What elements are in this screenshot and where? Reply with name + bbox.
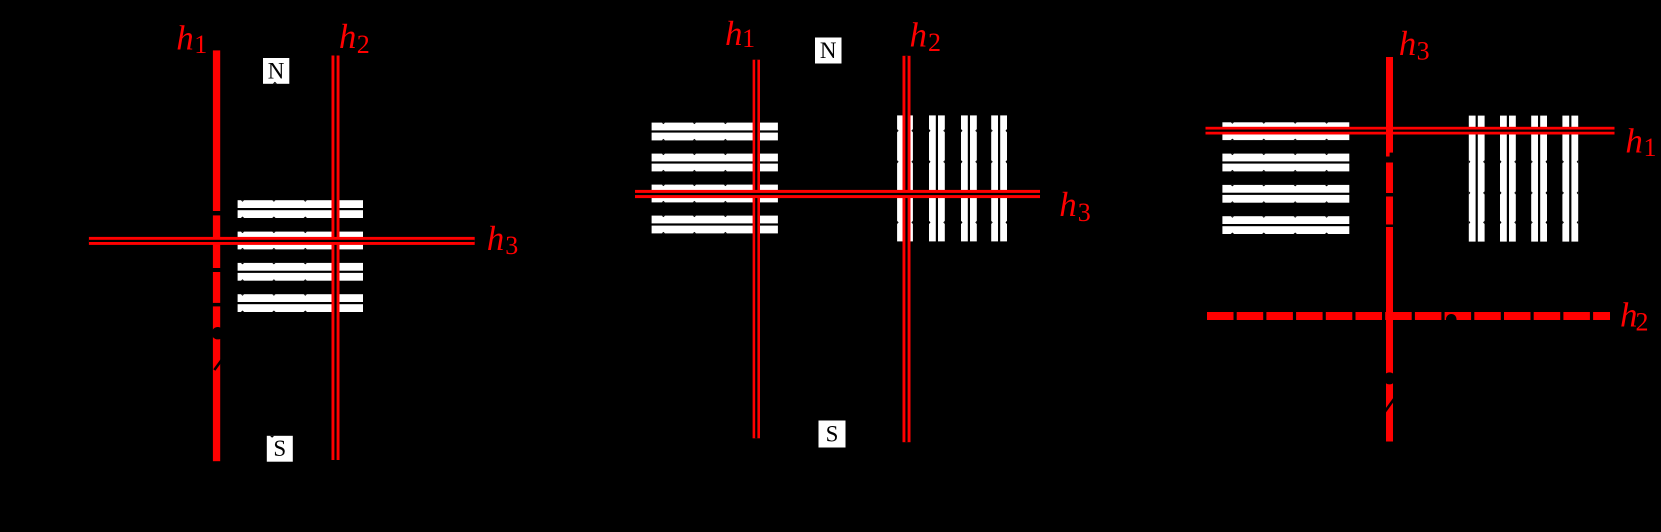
panel 1: label h3	[487, 219, 519, 260]
svg-text:2: 2	[928, 28, 941, 57]
panel 1: label h1	[176, 18, 207, 59]
svg-text:h: h	[1399, 24, 1417, 63]
panel 1: black curve turning dot on h1	[212, 327, 224, 339]
svg-text:h: h	[339, 17, 357, 56]
panel 3: white domain bar pair 3 (vertical)	[1531, 116, 1547, 242]
panel 1: black curve diagonal crossing h1	[214, 357, 224, 370]
svg-text:h: h	[1059, 185, 1077, 224]
panel 1: black curve crossing gaps on h1	[212, 211, 221, 306]
svg-text:3: 3	[1078, 198, 1091, 227]
panel 1: white domain bar pair 3	[238, 263, 363, 281]
panel 3: label h2	[1620, 295, 1649, 336]
svg-text:h: h	[176, 18, 194, 57]
svg-text:S: S	[826, 422, 839, 447]
panel 2: white domain bar pair 4 (vertical)	[991, 115, 1007, 241]
panel 3: white domain bar pair 4 (vertical)	[1562, 116, 1578, 242]
panel 1: white domain bar pair 1	[238, 200, 363, 218]
svg-text:2: 2	[1636, 308, 1649, 337]
panel 3: black curve turning dot on h3	[1384, 372, 1396, 384]
panel 1: field line h1 (thick red vertical)	[213, 50, 220, 461]
svg-text:h: h	[1625, 122, 1643, 161]
panel 2: white domain bar pair 1	[652, 123, 778, 141]
panel 3: field line h3 (thick red vertical)	[1386, 57, 1393, 442]
svg-text:h: h	[487, 219, 505, 258]
panel 3: label h3	[1399, 24, 1430, 66]
panel 2: label h2	[910, 16, 942, 58]
panel 3: white domain bar pair 4	[1222, 216, 1349, 234]
panel 2: white domain bar pair 4	[652, 216, 778, 234]
svg-text:S: S	[273, 436, 286, 461]
panel 3: white domain bar pair 1 (vertical)	[1469, 116, 1485, 242]
svg-text:N: N	[268, 58, 285, 83]
panel 3: field line h1 (red double horizontal, black core)	[1206, 127, 1615, 135]
panel 3: black curve diagonal crossing h3	[1385, 399, 1395, 413]
panel 2: white domain bar pair 3 (vertical)	[961, 115, 977, 241]
svg-text:3: 3	[1417, 37, 1430, 66]
panel 2: field line h2 (red double vertical, black core)	[903, 56, 911, 442]
svg-text:2: 2	[357, 30, 370, 59]
panel 1: white domain bar pair 2	[238, 232, 363, 250]
panel 2: white domain bar pair 2	[652, 154, 778, 172]
svg-text:3: 3	[505, 231, 518, 260]
svg-text:1: 1	[194, 30, 207, 59]
panel 3: white domain bar pair 1	[1222, 122, 1349, 140]
panel 1: field line h2 (red double vertical, black core)	[332, 56, 340, 461]
panel 2: label h1	[725, 14, 755, 53]
panel 3: black curve crossing gaps on h3	[1385, 153, 1394, 227]
panel 2: pole label N box	[815, 38, 842, 64]
panel 2: white domain bar pair 3	[652, 185, 778, 203]
panel 3: black curve turning dot on h2	[1446, 314, 1457, 325]
panel 2: white domain bar pair 2 (vertical)	[929, 115, 945, 241]
svg-text:h: h	[910, 16, 928, 55]
svg-text:1: 1	[1644, 133, 1657, 162]
panel 3: white domain bar pair 2 (vertical)	[1500, 116, 1516, 242]
panel 3: label h1	[1625, 122, 1656, 163]
panel 1: white domain bar pair 4	[238, 294, 363, 312]
panel 2: label h3	[1059, 185, 1091, 227]
panel 2: white domain bar pair 1 (vertical)	[897, 115, 913, 241]
panel 1: pole label N box	[263, 58, 289, 84]
panel 2: field line h1 (red double vertical, black core)	[753, 60, 760, 439]
panel 3: white domain bar pair 2	[1222, 154, 1349, 172]
panel 1: field line h3 (red double horizontal, black core)	[89, 237, 475, 245]
panel 3: field line h2 (thick red dashed horizontal)	[1207, 312, 1610, 320]
panel 2: pole label S box	[819, 421, 846, 448]
panel 1: label h2	[339, 17, 370, 59]
svg-text:1: 1	[742, 24, 755, 53]
panel 1: pole label S box	[267, 436, 293, 462]
panel 3: white domain bar pair 3	[1222, 185, 1349, 203]
svg-text:h: h	[725, 14, 743, 53]
panel 2: field line h3 (red double horizontal, black core)	[635, 190, 1040, 198]
svg-text:N: N	[820, 38, 837, 63]
